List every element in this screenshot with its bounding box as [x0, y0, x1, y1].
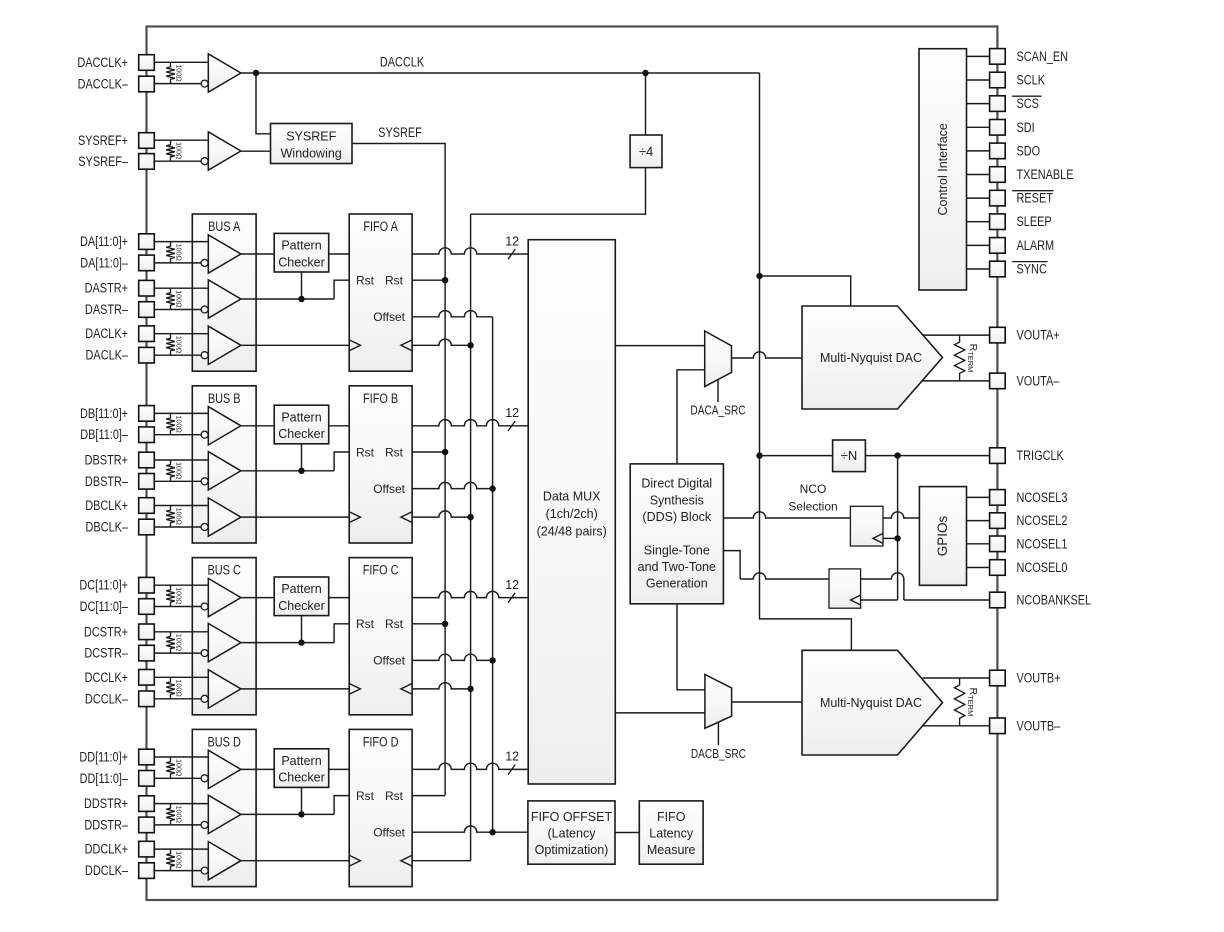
- wire DDS to NCO latch1: [723, 512, 850, 518]
- pin DACCLK-: [78, 76, 155, 92]
- svg-text:Pattern: Pattern: [281, 239, 321, 253]
- mux DACA_SRC: [690, 331, 745, 418]
- svg-text:Optimization): Optimization): [535, 843, 609, 857]
- svg-text:Pattern: Pattern: [281, 582, 321, 596]
- pin DA[11:0]-: [80, 255, 154, 271]
- svg-text:Rst: Rst: [385, 617, 404, 631]
- resistor 100ohm DACCLK: [166, 62, 183, 83]
- svg-text:SYSREF+: SYSREF+: [78, 133, 128, 149]
- svg-text:FIFO OFFSET: FIFO OFFSET: [531, 810, 613, 824]
- svg-text:Rst: Rst: [385, 274, 404, 288]
- svg-text:(24/48 pairs): (24/48 pairs): [537, 525, 607, 539]
- svg-text:100Ω: 100Ω: [175, 142, 184, 160]
- svg-text:FIFO: FIFO: [657, 810, 686, 824]
- pin SCAN_EN: [990, 49, 1068, 65]
- svg-text:100Ω: 100Ω: [175, 759, 184, 777]
- block BUS D: [192, 729, 256, 886]
- svg-text:NCOSEL2: NCOSEL2: [1017, 513, 1068, 529]
- pin DACLK+: [85, 326, 154, 342]
- pin TRIGCLK: [990, 448, 1065, 464]
- wire strobe A to FIFO Rst: [241, 280, 349, 299]
- wire control interface to SLEEP: [967, 221, 990, 223]
- resistor 100ohm D1: [166, 757, 183, 778]
- latch NCO 2: [829, 569, 861, 608]
- wire div4 output to FIFO clock bus: [471, 168, 646, 215]
- resistor RTERM B: [954, 678, 978, 726]
- svg-text:DC[11:0]+: DC[11:0]+: [79, 577, 128, 593]
- svg-text:Checker: Checker: [278, 599, 325, 613]
- svg-text:Rst: Rst: [356, 274, 375, 288]
- wire NCO clock vertical: [897, 456, 899, 600]
- svg-text:VOUTA+: VOUTA+: [1017, 327, 1060, 343]
- svg-text:Offset: Offset: [373, 826, 405, 840]
- wire FIFO C data bus to Data MUX: [412, 578, 528, 603]
- pin DBCLK+: [85, 498, 154, 514]
- wire VOUTA+: [923, 334, 990, 336]
- wire clock A to FIFO: [241, 344, 349, 346]
- pin SYSREF-: [78, 154, 154, 170]
- svg-text:100Ω: 100Ω: [175, 679, 184, 697]
- pin TXENABLE: [990, 167, 1074, 183]
- pin DC[11:0]+: [79, 577, 154, 593]
- wire control interface to TXENABLE: [967, 174, 990, 176]
- pin NCOSEL1: [990, 536, 1068, 552]
- svg-text:SCS: SCS: [1017, 96, 1039, 112]
- pin NCOSEL0: [990, 560, 1068, 576]
- svg-text:100Ω: 100Ω: [175, 634, 184, 652]
- wire FIFO B offset to offset net: [412, 482, 496, 491]
- svg-text:Multi-Nyquist DAC: Multi-Nyquist DAC: [820, 351, 922, 365]
- svg-text:GPIOs: GPIOs: [935, 516, 950, 557]
- buffer BUS B 3: [201, 498, 241, 536]
- wire DACCLK+ to buffer: [154, 61, 208, 63]
- wire VOUTA-: [922, 380, 989, 382]
- pin DDCLK+: [85, 841, 155, 857]
- svg-text:Data MUX: Data MUX: [543, 490, 601, 504]
- svg-text:NCOSEL0: NCOSEL0: [1017, 560, 1068, 576]
- wire control interface to SDI: [967, 126, 990, 128]
- wire DACB_SRC to DAC B: [732, 701, 802, 703]
- wire control interface to SCLK: [967, 79, 990, 81]
- wire GPIO to NCOSEL0: [967, 567, 990, 569]
- wire SYSREF buffer out: [241, 150, 271, 152]
- svg-text:Control Interface: Control Interface: [936, 123, 950, 215]
- resistor 100ohm B1: [166, 413, 183, 434]
- svg-text:÷N: ÷N: [841, 448, 858, 463]
- pin VOUTB-: [990, 718, 1061, 734]
- resistor 100ohm A2: [166, 288, 183, 309]
- pin DD[11:0]+: [79, 749, 154, 765]
- svg-text:Direct Digital: Direct Digital: [641, 477, 712, 491]
- svg-text:Pattern: Pattern: [281, 754, 321, 768]
- wire latch1 clock: [883, 535, 901, 541]
- pin NCOSEL2: [990, 513, 1068, 529]
- node pattern checker C tick: [298, 616, 304, 646]
- svg-text:DACCLK–: DACCLK–: [78, 76, 128, 92]
- svg-text:FIFO D: FIFO D: [363, 734, 399, 750]
- wire FIFO D clock from div4 net: [412, 860, 471, 862]
- pin SYNC: [990, 261, 1048, 277]
- svg-text:(DDS) Block: (DDS) Block: [642, 510, 712, 524]
- block SYSREF Windowing: [271, 124, 353, 164]
- svg-text:100Ω: 100Ω: [175, 244, 184, 262]
- svg-text:12: 12: [505, 578, 519, 592]
- divider /4: [630, 135, 662, 168]
- pin DASTR-: [85, 302, 154, 318]
- svg-text:Rst: Rst: [385, 789, 404, 803]
- block GPIOs: [919, 487, 966, 586]
- node DACCLK to DAC A: [756, 273, 850, 306]
- svg-text:100Ω: 100Ω: [175, 415, 184, 433]
- node pattern checker A tick: [298, 272, 304, 302]
- svg-text:NCOBANKSEL: NCOBANKSEL: [1017, 592, 1092, 608]
- svg-text:Checker: Checker: [278, 255, 325, 269]
- resistor 100ohm D2: [166, 804, 183, 825]
- pin VOUTA-: [990, 373, 1060, 389]
- wire DACA_SRC to DAC A: [732, 352, 803, 358]
- svg-text:Checker: Checker: [278, 427, 325, 441]
- node DACCLK to div4: [642, 70, 648, 135]
- svg-text:Checker: Checker: [278, 771, 325, 785]
- label DACCLK: [380, 54, 425, 70]
- svg-text:(Latency: (Latency: [548, 827, 597, 841]
- block Pattern Checker A: [274, 233, 329, 272]
- buffer BUS A 1: [201, 235, 241, 273]
- svg-text:TRIGCLK: TRIGCLK: [1017, 448, 1065, 464]
- wire FIFO D offset to offset net and FIFO OFFSET block: [412, 826, 528, 835]
- svg-text:VOUTA–: VOUTA–: [1017, 373, 1060, 389]
- svg-text:Offset: Offset: [373, 310, 405, 324]
- svg-text:Synthesis: Synthesis: [650, 493, 704, 507]
- resistor 100ohm SYSREF: [166, 140, 183, 161]
- buffer BUS A 3: [201, 326, 241, 364]
- node pattern checker B tick: [298, 444, 304, 474]
- wire control interface to SCAN_EN: [967, 55, 990, 57]
- resistor 100ohm C1: [166, 585, 183, 606]
- svg-text:DA[11:0]–: DA[11:0]–: [80, 255, 128, 271]
- resistor RTERM A: [954, 335, 978, 381]
- wire latch2 out to NCOBANKSEL: [861, 573, 990, 600]
- wire Data MUX to DACA_SRC: [615, 345, 704, 347]
- block Pattern Checker C: [274, 577, 329, 616]
- wire clock C to FIFO: [241, 688, 349, 690]
- wire control interface to SYNC: [967, 268, 990, 270]
- wire pin pair C1: [154, 585, 208, 606]
- svg-text:100Ω: 100Ω: [175, 290, 184, 308]
- svg-text:BUS D: BUS D: [208, 734, 241, 750]
- buffer BUS D 2: [201, 795, 241, 833]
- svg-text:100Ω: 100Ω: [175, 587, 184, 605]
- wire GPIO to NCOSEL2: [967, 520, 990, 522]
- block FIFO D: [349, 729, 412, 886]
- pin DDSTR+: [84, 796, 154, 812]
- block FIFO B: [349, 386, 412, 543]
- pin VOUTB+: [990, 670, 1061, 686]
- block DDS: [630, 464, 723, 604]
- pin DDSTR-: [84, 817, 154, 833]
- wire latch2 clock: [861, 599, 898, 601]
- svg-text:FIFO C: FIFO C: [363, 562, 399, 578]
- svg-text:Generation: Generation: [646, 576, 708, 590]
- pin ALARM: [990, 238, 1055, 254]
- svg-text:SYNC: SYNC: [1017, 261, 1047, 277]
- wire DDS to DACA_SRC: [677, 370, 705, 464]
- buffer BUS B 1: [201, 407, 241, 445]
- svg-text:SYSREF: SYSREF: [378, 125, 422, 141]
- svg-text:NCO: NCO: [800, 482, 827, 496]
- svg-text:SDI: SDI: [1017, 120, 1035, 136]
- pin RESET: [990, 190, 1054, 206]
- svg-text:Latency: Latency: [649, 827, 694, 841]
- svg-text:SDO: SDO: [1017, 143, 1041, 159]
- pin DASTR+: [85, 280, 155, 296]
- svg-text:BUS A: BUS A: [208, 219, 241, 235]
- svg-text:12: 12: [505, 750, 519, 764]
- buffer BUS D 3: [201, 842, 241, 880]
- svg-text:DCSTR–: DCSTR–: [84, 645, 128, 661]
- svg-text:DACB_SRC: DACB_SRC: [691, 747, 746, 761]
- pin SDI: [990, 120, 1035, 136]
- pin DA[11:0]+: [80, 234, 154, 250]
- buffer BUS D 1: [201, 750, 241, 788]
- svg-text:100Ω: 100Ω: [175, 851, 184, 869]
- pin DBSTR-: [85, 474, 154, 490]
- label NCO Selection: [788, 482, 837, 514]
- pin SLEEP: [990, 214, 1052, 230]
- buffer U-SYSREF: [201, 132, 241, 170]
- block FIFO OFFSET (Latency Optimization): [528, 801, 615, 864]
- svg-text:DACLK–: DACLK–: [86, 347, 128, 363]
- wire VOUTB-: [923, 725, 990, 727]
- pin DACCLK+: [77, 55, 154, 71]
- block Data MUX: [528, 240, 615, 784]
- svg-text:SYSREF: SYSREF: [286, 130, 336, 144]
- wire Data MUX to DACB_SRC: [615, 712, 705, 714]
- wire FIFO C clock from div4 net: [412, 683, 474, 692]
- svg-text:and Two-Tone: and Two-Tone: [638, 560, 716, 574]
- wire pin pair A3: [154, 334, 208, 356]
- svg-text:VOUTB–: VOUTB–: [1017, 718, 1061, 734]
- resistor 100ohm B2: [166, 460, 183, 481]
- resistor 100ohm C2: [166, 632, 183, 653]
- svg-text:Offset: Offset: [373, 482, 405, 496]
- svg-text:DD[11:0]+: DD[11:0]+: [79, 749, 128, 765]
- svg-text:DBSTR+: DBSTR+: [85, 452, 128, 468]
- resistor 100ohm B3: [166, 506, 183, 528]
- pin VOUTA+: [990, 327, 1060, 343]
- resistor 100ohm D3: [166, 849, 183, 871]
- mux DACB_SRC: [691, 674, 746, 761]
- svg-text:DCSTR+: DCSTR+: [84, 624, 128, 640]
- svg-text:DBCLK–: DBCLK–: [86, 519, 128, 535]
- pin SYSREF+: [78, 133, 154, 149]
- wire DACCLK to divN and TRIGCLK: [756, 452, 989, 458]
- wire pin pair A1: [154, 242, 208, 263]
- wire clock D to FIFO: [241, 860, 349, 862]
- wire strobe D to FIFO Rst: [241, 796, 349, 815]
- wire SYSREF net: [352, 144, 445, 796]
- wire pattern checker B to FIFO: [329, 425, 350, 427]
- svg-text:DACA_SRC: DACA_SRC: [690, 403, 745, 417]
- svg-text:DACCLK: DACCLK: [380, 54, 425, 70]
- block FIFO A: [349, 214, 412, 371]
- wire pattern checker C to FIFO: [329, 597, 350, 599]
- svg-text:TXENABLE: TXENABLE: [1017, 167, 1074, 183]
- wire pin pair D1: [154, 757, 208, 778]
- pin SCS: [990, 96, 1042, 112]
- buffer BUS C 1: [201, 578, 241, 616]
- svg-text:DB[11:0]+: DB[11:0]+: [80, 406, 128, 422]
- wire pattern checker A to FIFO: [329, 253, 350, 255]
- wire SYSREF- to buffer: [154, 160, 201, 162]
- wire pattern checker D to FIFO: [329, 768, 350, 770]
- svg-text:Measure: Measure: [647, 843, 696, 857]
- pin DCSTR-: [84, 645, 154, 661]
- pin DCCLK+: [85, 670, 155, 686]
- wire clock-div4 vertical bus: [470, 214, 472, 861]
- svg-text:Multi-Nyquist DAC: Multi-Nyquist DAC: [820, 696, 922, 710]
- svg-text:SLEEP: SLEEP: [1017, 214, 1052, 230]
- wire FIFO D Rst to SYSREF net: [412, 795, 445, 797]
- wire pin pair D3: [154, 849, 208, 871]
- svg-text:Rst: Rst: [385, 445, 404, 459]
- svg-text:DBCLK+: DBCLK+: [85, 498, 128, 514]
- svg-text:BUS B: BUS B: [208, 391, 241, 407]
- svg-text:SYSREF–: SYSREF–: [78, 154, 128, 170]
- svg-text:Single-Tone: Single-Tone: [644, 544, 710, 558]
- wire FIFO B data bus to Data MUX: [412, 406, 528, 431]
- svg-text:DD[11:0]–: DD[11:0]–: [80, 771, 128, 787]
- block BUS A: [192, 214, 256, 371]
- wire VOUTB+: [923, 677, 990, 679]
- svg-text:BUS C: BUS C: [208, 562, 241, 578]
- svg-text:(1ch/2ch): (1ch/2ch): [546, 507, 598, 521]
- svg-text:FIFO A: FIFO A: [363, 219, 398, 235]
- svg-text:DDCLK–: DDCLK–: [85, 863, 128, 879]
- svg-text:Windowing: Windowing: [281, 147, 342, 161]
- node DACCLK branch to SYSREF windowing: [253, 70, 271, 134]
- block FIFO Latency Measure: [639, 801, 703, 864]
- pin DACLK-: [86, 347, 155, 363]
- wire FIFO A Rst to SYSREF net: [412, 277, 448, 283]
- wire DACCLK main: [241, 73, 852, 650]
- buffer BUS C 3: [201, 670, 241, 708]
- wire pin pair B1: [154, 413, 208, 434]
- svg-text:12: 12: [505, 406, 519, 420]
- svg-text:12: 12: [505, 234, 519, 248]
- svg-text:DBSTR–: DBSTR–: [85, 474, 128, 490]
- wire buffer1 B to pattern checker: [241, 425, 274, 427]
- block Control Interface: [919, 49, 967, 290]
- wire FIFO A offset to offset net: [412, 311, 493, 317]
- svg-text:Rst: Rst: [356, 617, 375, 631]
- buffer BUS B 2: [201, 452, 241, 490]
- wire strobe C to FIFO Rst: [241, 624, 349, 643]
- block BUS C: [192, 558, 256, 715]
- wire DACCLK- to buffer: [154, 83, 201, 85]
- wire control interface to SCS: [967, 103, 990, 105]
- wire GPIO to NCOSEL1: [967, 543, 990, 545]
- svg-text:DCCLK+: DCCLK+: [85, 670, 128, 686]
- pin DB[11:0]+: [80, 406, 154, 422]
- svg-text:RESET: RESET: [1017, 190, 1054, 206]
- pin DC[11:0]-: [80, 599, 155, 615]
- svg-text:DA[11:0]+: DA[11:0]+: [80, 234, 128, 250]
- resistor 100ohm A3: [166, 334, 183, 356]
- chip boundary: [147, 27, 998, 901]
- svg-text:100Ω: 100Ω: [175, 508, 184, 526]
- wire FIFO B Rst to SYSREF net: [412, 449, 448, 455]
- wire FIFO D data bus to Data MUX: [412, 750, 528, 775]
- svg-text:DDSTR+: DDSTR+: [84, 796, 128, 812]
- pin DCCLK-: [85, 691, 154, 707]
- wire SYSREF+ to buffer: [154, 139, 208, 141]
- svg-text:100Ω: 100Ω: [175, 806, 184, 824]
- block FIFO C: [349, 558, 412, 715]
- dac Multi-Nyquist DAC B: [802, 650, 943, 755]
- wire GPIO to NCOSEL3: [967, 496, 990, 498]
- buffer U-DACCLK: [201, 54, 241, 92]
- svg-text:100Ω: 100Ω: [175, 64, 184, 82]
- block BUS B: [192, 386, 256, 543]
- svg-text:NCOSEL1: NCOSEL1: [1017, 536, 1068, 552]
- latch NCO 1: [850, 506, 883, 546]
- pin DB[11:0]-: [80, 427, 154, 443]
- svg-text:Offset: Offset: [373, 654, 405, 668]
- wire FIFO OFFSET to FIFO Latency Measure: [615, 832, 639, 834]
- wire buffer1 A to pattern checker: [241, 253, 274, 255]
- resistor 100ohm C3: [166, 677, 183, 699]
- wire strobe B to FIFO Rst: [241, 452, 349, 471]
- wire FIFO C offset to offset net: [412, 654, 496, 663]
- pin NCOBANKSEL: [990, 592, 1092, 608]
- pin SCLK: [990, 72, 1046, 88]
- wire clock B to FIFO: [241, 516, 349, 518]
- svg-text:Rst: Rst: [356, 445, 375, 459]
- svg-text:DACLK+: DACLK+: [85, 326, 128, 342]
- svg-text:DB[11:0]–: DB[11:0]–: [80, 427, 128, 443]
- dac Multi-Nyquist DAC A: [802, 306, 943, 409]
- svg-text:÷4: ÷4: [639, 144, 653, 159]
- pin DBSTR+: [85, 452, 155, 468]
- svg-text:DDCLK+: DDCLK+: [85, 841, 128, 857]
- buffer BUS A 2: [201, 280, 241, 318]
- wire pin pair D2: [154, 804, 208, 825]
- svg-text:SCLK: SCLK: [1017, 72, 1046, 88]
- node pattern checker D tick: [298, 787, 304, 817]
- pin SDO: [990, 143, 1041, 159]
- wire control interface to SDO: [967, 150, 990, 152]
- wire latch1 out to GPIOs: [883, 512, 919, 518]
- divider /N: [833, 440, 866, 472]
- wire buffer1 C to pattern checker: [241, 597, 274, 599]
- wire pin pair C3: [154, 677, 208, 699]
- wire DDS to DACB_SRC: [677, 604, 705, 690]
- block Pattern Checker D: [274, 749, 329, 788]
- wire control interface to ALARM: [967, 244, 990, 246]
- pin NCOSEL3: [990, 490, 1068, 506]
- svg-text:DCCLK–: DCCLK–: [85, 691, 128, 707]
- svg-text:DDSTR–: DDSTR–: [84, 817, 128, 833]
- block Pattern Checker B: [274, 405, 329, 444]
- wire FIFO B clock from div4 net: [412, 511, 474, 520]
- wire FIFO C Rst to SYSREF net: [412, 621, 448, 627]
- pin DD[11:0]-: [80, 771, 155, 787]
- buffer BUS C 2: [201, 623, 241, 661]
- pin DBCLK-: [86, 519, 155, 535]
- pin DDCLK-: [85, 863, 154, 879]
- wire pin pair B3: [154, 506, 208, 528]
